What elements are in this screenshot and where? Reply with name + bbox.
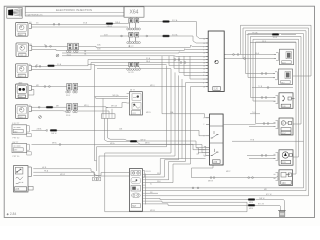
rounded cell with dot (131, 177, 141, 183)
svg-text:MR W: MR W (141, 140, 146, 142)
module box B8 (diagnostic socket 225) (14, 166, 34, 192)
left pin squares (93, 177, 97, 181)
splice symbol under B2 (56, 54, 59, 57)
long vertical from row B3 to bottom area (95, 65, 97, 161)
nested loop wire L7 (256, 42, 297, 174)
small connector C6 (101, 114, 115, 119)
wire MR QA to unit 222 (95, 96, 129, 98)
wire through C7 upper (95, 65, 167, 66)
footer (7, 212, 17, 216)
svg-text:190: 190 (282, 182, 287, 185)
bottom right (146, 184, 309, 217)
right box RB2 (ignition coil) (273, 69, 293, 85)
wire y195.8 to loop L2 (146, 195, 309, 197)
svg-text:8: 8 (203, 75, 204, 77)
right box RB4 (pressure unit) (274, 118, 294, 135)
right box RB3 (stepper motor) (274, 93, 295, 109)
svg-text:PRT 30: PRT 30 (13, 156, 21, 158)
svg-text:38 TT: 38 TT (130, 90, 136, 92)
svg-text:B1: B1 (30, 44, 32, 46)
inline connector C4 (66, 83, 78, 97)
wire cluster C1 right to ECU pin 38.5 (139, 21, 162, 23)
svg-text:12: 12 (203, 65, 205, 67)
nested loop wire L4 (248, 34, 304, 188)
wire C6 down to shield blob (105, 118, 131, 141)
wire cluster C2 right to ECU pin 43 (139, 35, 162, 37)
splice on C2 right wire (146, 35, 148, 37)
wire RB3 left pin 2 feed (253, 100, 276, 102)
svg-text:P: P (282, 121, 284, 125)
svg-text:MR Q: MR Q (84, 105, 89, 107)
wire y201.1 (146, 201, 247, 202)
wire ECU pin to RB1 pin 2 (226, 58, 276, 60)
blob wire 1 to ground (146, 198, 248, 199)
harness connector icon box top-left (7, 7, 22, 18)
svg-text:19: 19 (203, 43, 205, 45)
wire y190.5 to loop L3 (146, 190, 306, 192)
svg-text:MR W: MR W (208, 181, 213, 183)
right column (273, 49, 295, 185)
svg-text:MR N: MR N (146, 112, 151, 114)
wire MR W to relay pin 5 (137, 141, 206, 148)
svg-text:597: 597 (132, 205, 137, 208)
svg-text:3CC A: 3CC A (172, 19, 178, 22)
right box RB1 (idle actuator) (274, 49, 294, 64)
blob wire on loop row (247, 33, 273, 35)
svg-text:3: 3 (203, 46, 204, 48)
svg-text:15: 15 (203, 72, 205, 74)
short stub 193.2 (146, 192, 158, 194)
wire B1 pin1 to cluster C1 (31, 23, 106, 25)
middle component box BM2 (127, 90, 143, 115)
svg-text:3: 3 (203, 136, 204, 138)
right bracket pins (142, 171, 144, 178)
RB3 left pin feeds (251, 97, 276, 99)
right box RB6 (fuel pump) (274, 170, 293, 186)
wire staircase S3 to unit 597 (99, 72, 175, 176)
between RB3/RB4 wire (250, 113, 260, 115)
inline connector C3 (67, 43, 79, 56)
svg-text:ELECTRONIC INJECTION: ELECTRONIC INJECTION (56, 8, 92, 12)
wire B4 pin1 through C4 (31, 86, 67, 88)
svg-text:◆ 2-84: ◆ 2-84 (7, 212, 17, 216)
wire B8 HK A to pin square (33, 172, 99, 177)
nested loop wire L6 (253, 39, 299, 157)
svg-text:5: 5 (203, 49, 204, 51)
wire RB5 left pin 2 feed (249, 158, 276, 160)
wire B5 pin1 blob then C5 (31, 106, 46, 108)
svg-text:ETL W: ETL W (266, 194, 272, 196)
bottom middle box (fuse/junction unit 597) (93, 169, 152, 212)
svg-text:24B A: 24B A (115, 21, 121, 24)
splice symbol under B5 (39, 116, 42, 119)
relay contact symbols (211, 131, 219, 138)
svg-text:30: 30 (203, 38, 205, 40)
svg-text:20: 20 (203, 56, 205, 58)
inline connector C5 (66, 104, 78, 118)
wire staircase S2 (105, 69, 171, 154)
pin marks cell (131, 171, 141, 176)
wire drop into C6 (111, 109, 113, 114)
X64 label box (124, 7, 144, 17)
X64 connector cluster C2 (127, 33, 141, 44)
module box B7 (2W TT) (12, 142, 31, 158)
wire B4 pin2 loops back (28, 90, 34, 96)
module box B6 (F 52 TT) (12, 123, 31, 139)
wire vertical feed of 24A (161, 56, 163, 114)
wire B8 HK B to pin square (33, 169, 94, 177)
middle wires (28, 17, 278, 212)
right side wires (226, 25, 311, 196)
label (131, 204, 140, 208)
RB4 left pin feeds (256, 123, 276, 125)
right bus ladder (145, 174, 147, 205)
wire staircase S5 to relay bracket and bus (146, 79, 206, 175)
title box (25, 7, 124, 17)
wire relay bottom to fuel pump RB6 (192, 165, 279, 178)
svg-text:FDC: FDC (282, 133, 287, 135)
svg-text:TR W: TR W (273, 37, 278, 39)
sensor box B1 (coolant temp sensor 244) (16, 21, 32, 36)
RB4 frame bottom branch (232, 140, 304, 142)
wire B5 pin2 to C5 (31, 110, 67, 112)
svg-text:24: 24 (203, 68, 205, 70)
svg-text:238: 238 (213, 161, 218, 164)
bus wires crossing under X64 cluster to ECU (120, 45, 208, 47)
svg-text:13: 13 (203, 52, 205, 54)
sensor box B5 (TDC sensor 149) (16, 105, 32, 119)
ECU left pin ticks (206, 39, 208, 87)
circles cell (132, 193, 141, 198)
nested loop wire L1 (241, 25, 312, 76)
wire B6 to relay pin (32, 129, 47, 131)
svg-text:3FL: 3FL (157, 173, 160, 175)
ECU right pins to RB1 left pins (226, 54, 276, 56)
wire MR A to relay pin 6 (60, 145, 206, 153)
wire MR QA2 branch to connector C6 (96, 97, 128, 114)
svg-text:4: 4 (203, 82, 204, 84)
svg-text:MR W: MR W (60, 174, 65, 176)
svg-text:24B W: 24B W (259, 198, 265, 200)
svg-text:225: 225 (15, 188, 20, 191)
wire B2 pin1 through C3 to bus (32, 45, 68, 47)
X64 connector cluster C1 (127, 17, 141, 30)
sensor box B4 (knock sensor, two dots) (16, 82, 32, 99)
svg-text:5: 5 (203, 150, 204, 152)
right box RB5 (injector) (274, 150, 294, 165)
ECU injection computer 120 (203, 31, 226, 92)
inner horizontal run (250, 42, 296, 44)
svg-text:3L: 3L (150, 184, 152, 186)
blob wire 2 to ground (146, 202, 248, 212)
wire 24B W to relay pin 3 (57, 130, 206, 135)
svg-text:24B A: 24B A (37, 128, 43, 131)
svg-text:27: 27 (203, 79, 205, 81)
RB2 left pin feeds (246, 73, 276, 75)
wire staircase S7 (146, 87, 209, 183)
svg-text:3 DL B: 3 DL B (145, 171, 151, 173)
splice on C2 left wire (121, 35, 123, 37)
svg-text:R107: R107 (66, 95, 70, 97)
wire B3 pin1 jog up to ECU pin 59.5 (31, 65, 47, 67)
under RB2 wire (252, 87, 293, 89)
wire through C7 lower (97, 67, 171, 68)
wire staircase S6 (146, 83, 209, 180)
svg-text:R108: R108 (66, 115, 70, 117)
wire RB4 left pin 2 feed (249, 126, 276, 128)
relay left pin stubs (206, 118, 210, 156)
svg-text:3CG A: 3CG A (172, 33, 178, 36)
wire cluster C2 drop to bus (129, 45, 131, 48)
wire B8 MR W to unit 597 (33, 173, 129, 176)
wire C6 down 2 to shield blob (108, 118, 131, 140)
wire C5 exit 2 to C6 (78, 111, 109, 114)
ground symbol MH (278, 211, 285, 217)
title block group (7, 7, 144, 18)
wire into cluster C2 from left (3CH) (100, 35, 129, 37)
svg-text:TR QA: TR QA (252, 32, 258, 35)
RB5 left pin feeds (247, 154, 276, 156)
wire MR QB into unit 222 (106, 103, 127, 108)
svg-text:74A PRIMVECTX: 74A PRIMVECTX (26, 13, 43, 16)
wire B2 pin2 (32, 49, 120, 50)
shield blob 244B (106, 23, 113, 25)
relay unit box 238 (196, 114, 255, 165)
svg-text:MR P: MR P (226, 171, 231, 173)
wire B3 pin2 to long vertical (31, 63, 208, 70)
sensor box B3 (sensor 242) (16, 63, 32, 78)
left column boxes (12, 21, 33, 192)
svg-text:33: 33 (203, 62, 205, 64)
wire RB2 left pin 2 feed (248, 77, 275, 79)
nested loop wire L3 (246, 31, 307, 191)
nested loop wire L5 (251, 36, 302, 124)
dark cell (131, 185, 141, 191)
ECU right pins (224, 55, 226, 59)
wire TR continues to loop (281, 33, 296, 35)
svg-text:A1: A1 (29, 21, 31, 24)
svg-text:X64: X64 (130, 10, 139, 16)
svg-text:120: 120 (214, 88, 219, 91)
svg-text:1: 1 (203, 118, 204, 120)
nested loop wire L2 (243, 28, 309, 196)
sensor box B2 (air temp sensor) (16, 43, 32, 57)
long wire y187.9 with splices (146, 187, 304, 189)
wire bottom rail (105, 153, 247, 212)
inline connector C7 on B3 row (127, 62, 141, 74)
wire B7 to relay (32, 144, 61, 146)
svg-text:MR QA: MR QA (113, 94, 120, 97)
svg-text:2: 2 (203, 124, 204, 126)
svg-text:24B W: 24B W (51, 133, 57, 135)
wire staircase S4 to bus (146, 75, 179, 177)
svg-text:28: 28 (203, 86, 205, 88)
svg-text:ETC W: ETC W (258, 204, 264, 206)
ECU bundle verticals with staircase to bottom left (169, 56, 208, 66)
wire staircase S1 (97, 66, 167, 172)
svg-text:PRT 30: PRT 30 (13, 138, 21, 140)
svg-text:3J: 3J (44, 45, 46, 47)
svg-text:24 278: 24 278 (128, 72, 134, 74)
ECU pin number smudges (203, 38, 205, 88)
svg-text:11: 11 (203, 59, 205, 61)
wire MR B to relay pin 5b (137, 142, 206, 150)
wire B1 pin2 to cluster C1 (31, 26, 127, 28)
wire 24A to relay pin 1 (162, 114, 210, 118)
